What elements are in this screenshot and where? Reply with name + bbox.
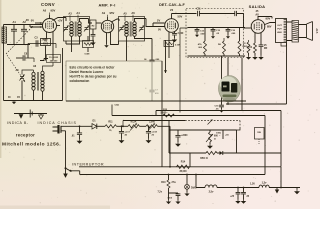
wire V4 top stub	[258, 17, 272, 20]
svg-text:-3V: -3V	[25, 18, 29, 22]
paper scan edge bottom	[0, 206, 110, 210]
wire osc bottom rail	[4, 100, 63, 102]
switch S1	[63, 167, 79, 178]
svg-text:27Ω: 27Ω	[172, 181, 177, 184]
potentiometer 600 in box	[206, 130, 219, 148]
small diode on 650 line	[220, 151, 223, 155]
AC plug	[53, 125, 62, 134]
IFT1 secondary coil	[78, 22, 81, 37]
resistor R1 box	[41, 39, 51, 46]
label R7	[243, 43, 248, 48]
wire box to coil	[40, 59, 48, 61]
svg-text:V3: V3	[170, 8, 174, 12]
note text line 2	[70, 70, 104, 74]
wire IFT2 sec bottom down	[135, 36, 153, 39]
label A1	[13, 20, 17, 24]
wire 650 line	[169, 151, 281, 154]
legend text INDICA CHASIS	[38, 121, 77, 125]
label A6	[131, 11, 135, 21]
resistor R3 boxed	[83, 36, 94, 56]
svg-text:DIAL: DIAL	[191, 187, 197, 190]
label C13	[200, 31, 206, 36]
svg-text:CONV: CONV	[41, 2, 55, 7]
tube V4 SALIDA	[251, 20, 265, 34]
svg-text:Daniel Horacio Lucero: Daniel Horacio Lucero	[70, 70, 104, 74]
electrolytic C17 with ground	[119, 126, 131, 142]
wire long vertical x180	[180, 28, 188, 113]
capacitor C16	[226, 28, 231, 39]
electrolytic C21	[230, 187, 240, 204]
wire blob vertical 1	[221, 56, 223, 105]
ground far right	[295, 188, 299, 194]
svg-text:colaboracion: colaboracion	[70, 79, 90, 83]
svg-text:C9 .00025: C9 .00025	[49, 57, 59, 59]
tube V3 DET CAV A-F	[165, 19, 179, 33]
wire AC top	[62, 125, 93, 127]
label 2.5v	[209, 191, 214, 194]
capacitor C13 with B- arrow	[195, 28, 200, 38]
svg-text:.0005: .0005	[42, 39, 49, 42]
label 2V at V3	[157, 19, 160, 23]
label C14 25MF	[264, 45, 268, 50]
svg-text:5,000~: 5,000~	[161, 113, 169, 115]
wire V4 plate right	[265, 23, 276, 25]
svg-text:OUT: OUT	[277, 25, 282, 27]
output transformer winding	[284, 20, 287, 41]
wire under note box	[66, 100, 246, 102]
capacitor C20 hang with B- arrow	[214, 105, 223, 112]
svg-text:75,: 75,	[109, 130, 112, 132]
resistor R9 cathode	[253, 43, 257, 59]
B- arrow bottom chain	[275, 188, 279, 194]
capacitor C8 on horizontal	[16, 53, 34, 63]
junction dots rails	[169, 166, 197, 176]
svg-text:1000: 1000	[216, 133, 222, 135]
wire lamp to ground	[185, 189, 189, 195]
label 88V	[267, 26, 272, 29]
label C value 2000	[178, 33, 184, 35]
wire V2 plate stub	[107, 17, 109, 20]
wire V1 cathode down	[46, 32, 48, 39]
resistor R13 on AC line	[146, 122, 158, 131]
label R11	[108, 121, 113, 133]
label 650	[200, 156, 208, 160]
wire antenna top rail	[4, 24, 43, 26]
resistor R14 on upper rail	[177, 161, 190, 174]
osc coil secondary	[41, 71, 44, 91]
osc gang dashed line	[7, 55, 25, 82]
osc coil primary	[32, 72, 35, 90]
svg-text:R10: R10	[161, 182, 166, 184]
svg-text:2V: 2V	[157, 19, 160, 23]
capacitor C3	[36, 40, 38, 46]
wire OT secondary down	[286, 43, 288, 105]
wire loop C horizontal	[112, 104, 265, 175]
svg-text:95V: 95V	[110, 11, 115, 15]
wire osc line left down	[27, 44, 29, 59]
wire IFT1 sec bottom	[66, 36, 80, 44]
svg-text:+C18: +C18	[152, 132, 158, 134]
wire V3 cathode down	[169, 32, 175, 41]
wire 650 vertical left	[189, 153, 191, 167]
IFT1 primary trimmer	[63, 26, 68, 32]
resistor R6	[223, 38, 226, 56]
label V3 id	[170, 8, 183, 19]
small box right	[255, 128, 265, 145]
svg-text:Este circuito lo envia el lect: Este circuito lo envia el lector	[70, 65, 116, 69]
label C5 at left	[8, 96, 21, 99]
svg-text:7,2v: 7,2v	[158, 192, 163, 194]
svg-text:INTERRUPTOR: INTERRUPTOR	[72, 162, 104, 166]
resistor R5 470k	[204, 28, 207, 57]
line capacitor C13a with ground	[71, 125, 82, 143]
wire osc coil bottoms	[22, 88, 43, 101]
wire IFT2 primary bottom down	[126, 36, 128, 61]
svg-text:R14: R14	[181, 161, 186, 164]
IFT2 can outline	[119, 17, 145, 42]
wire chain right vertical	[280, 167, 282, 189]
wire IFT1 primary bottom	[71, 36, 73, 52]
filament rail lower	[80, 174, 265, 176]
label C16	[231, 30, 236, 35]
svg-text:+2200: +2200	[181, 135, 188, 137]
legend wire	[14, 113, 47, 115]
svg-text:35,000: 35,000	[179, 171, 187, 173]
tube V2 AMP F-I	[101, 20, 113, 32]
wire loop B left leg	[155, 111, 157, 116]
caption receptor	[16, 132, 35, 137]
inner box	[169, 130, 237, 153]
label D1	[92, 120, 96, 123]
wire AVC arrow stub	[164, 40, 167, 73]
capacitor C15	[211, 28, 216, 39]
wire osc coil top feeds	[43, 63, 54, 72]
box R4 240000	[47, 55, 61, 63]
wire V4 cathode pins	[255, 33, 261, 43]
note text line 1	[70, 65, 116, 69]
wire V2 cathode down arrow	[104, 33, 109, 48]
coupling capacitor C11	[198, 11, 200, 17]
wire note box right vertical	[161, 61, 163, 167]
legend battery symbol	[30, 110, 32, 118]
rectifier diode D1	[92, 124, 105, 129]
svg-text:C11: C11	[196, 8, 201, 11]
IFT2 secondary trimmer	[139, 26, 144, 32]
svg-text:Mitchell modelo 1256.: Mitchell modelo 1256.	[2, 142, 61, 148]
label C3	[34, 37, 48, 42]
IFT2 primary trimmer	[119, 26, 124, 32]
wire IFT1 sec top to V2 grid	[80, 19, 93, 24]
wire couplate right down	[241, 58, 243, 111]
label SALIDA stage title	[249, 4, 266, 17]
label 0V at V1	[31, 19, 34, 23]
speaker wires to cone	[299, 25, 307, 38]
wire V1 grid left upper	[35, 22, 43, 24]
svg-text:1,3v: 1,3v	[262, 182, 267, 185]
wire osc top line	[28, 44, 56, 49]
wire plug bottom to switch	[62, 131, 66, 168]
osc coil core	[38, 72, 39, 91]
wire chain up left	[195, 175, 197, 188]
speaker voice coil	[292, 21, 299, 43]
resistor R7 half meg	[238, 28, 241, 57]
label R10 27	[161, 181, 176, 184]
svg-text:2,000: 2,000	[178, 33, 184, 35]
capacitor C10 on AVC return	[144, 39, 160, 90]
wire detector bottom rail	[188, 55, 246, 57]
svg-text:INDICA CHASIS: INDICA CHASIS	[38, 121, 77, 125]
label 7.2v	[158, 192, 163, 194]
label R9 150	[248, 47, 253, 49]
tuning gang capacitor C1b	[21, 25, 27, 45]
filament rail upper	[79, 166, 281, 168]
gang dashed line	[6, 26, 33, 54]
label AMP F-I stage title	[98, 3, 115, 8]
label R5	[198, 43, 203, 49]
IFT1 core	[75, 22, 76, 37]
choke L3	[259, 185, 269, 187]
label C15	[216, 30, 221, 35]
svg-text:DET..CAV..A-F: DET..CAV..A-F	[159, 3, 185, 7]
wire IFT can down	[62, 48, 64, 101]
label 130	[250, 183, 255, 186]
label A6 osc	[33, 65, 37, 68]
wire loop D horizontal	[122, 120, 240, 131]
svg-text:1,30: 1,30	[250, 183, 255, 186]
vertical wire V3 cathode long	[168, 40, 170, 58]
wire R2 to V2 grid	[96, 22, 101, 24]
svg-text:MF: MF	[264, 48, 268, 50]
wire V1 right pin	[57, 25, 61, 27]
capacitor C4 below R2	[91, 34, 96, 44]
capacitor C23 with ground	[167, 193, 180, 204]
wire V3 left pin	[153, 23, 165, 27]
svg-text:A5: A5	[123, 12, 127, 16]
legend chassis arrow	[39, 114, 44, 120]
wire V3 plate stub	[171, 16, 173, 19]
svg-text:+C17: +C17	[125, 132, 131, 134]
wire V1 plate to IFT1	[53, 18, 67, 22]
wire V1 pin2 down	[52, 32, 54, 61]
svg-text:A6: A6	[131, 11, 135, 15]
wire blob vertical 2	[227, 58, 229, 105]
wire OT B+ down from can	[281, 43, 287, 47]
label 1.3v	[262, 182, 267, 185]
svg-text:88V: 88V	[267, 26, 272, 29]
resistor R10 27ohm	[167, 174, 170, 193]
IFT1 secondary trimmer	[84, 26, 89, 32]
svg-text:95V: 95V	[51, 9, 56, 13]
stain blob	[219, 76, 241, 103]
label 0V at V3	[158, 29, 161, 32]
svg-text:2,000: 2,000	[149, 122, 155, 124]
label A3	[68, 12, 72, 22]
svg-text:SALIDA: SALIDA	[249, 4, 266, 9]
IFT2 core	[130, 22, 131, 37]
svg-text:90V: 90V	[266, 17, 271, 21]
wire R10 own ground	[167, 193, 171, 204]
antenna coil L1	[2, 27, 7, 43]
svg-text:0V: 0V	[31, 19, 34, 23]
IFT1 primary coil	[70, 22, 73, 37]
label R6	[218, 44, 222, 46]
wire box corner feed	[168, 121, 170, 131]
svg-text:0V: 0V	[158, 29, 161, 32]
label 90V	[266, 17, 271, 21]
electrolytic C18 with ground	[146, 126, 158, 142]
label A4	[76, 11, 80, 21]
dashed couplate box	[186, 9, 244, 58]
wire V2 pin right down	[111, 32, 119, 45]
speaker ALT	[307, 22, 320, 41]
caption Mitchell modelo	[2, 142, 61, 148]
label CONV stage title	[41, 2, 55, 7]
wire AC right	[158, 126, 171, 167]
label V2 voltage	[102, 11, 115, 17]
resistor R16 bias	[247, 40, 251, 59]
wire V4 grid from box	[244, 27, 252, 29]
capacitor C14 cathode bypass	[259, 43, 264, 59]
svg-text:A1: A1	[13, 20, 17, 24]
wire bottom chain	[196, 187, 300, 189]
label C11	[196, 8, 201, 11]
svg-text:ALT.: ALT.	[315, 28, 319, 34]
svg-text:50V: 50V	[178, 15, 183, 19]
wire tuning bottom rail	[7, 44, 30, 46]
legend B- triangle	[19, 114, 24, 119]
svg-text:A3: A3	[68, 12, 72, 16]
resistor R11 on AC line	[105, 125, 117, 128]
legend text INDICA B-	[7, 121, 29, 125]
svg-text:2,5v: 2,5v	[209, 191, 214, 194]
label A5 osc	[16, 69, 20, 72]
svg-text:0.1M: 0.1M	[175, 45, 180, 47]
IFT2 primary coil	[125, 22, 128, 37]
electrolytic C19 in box	[175, 130, 188, 146]
wire left vertical bus	[3, 25, 5, 101]
label INTERRUPTOR	[72, 162, 104, 166]
label A2	[23, 20, 27, 24]
wire C11 to right edge	[200, 11, 244, 28]
resistor R17 boxed	[164, 41, 180, 47]
electrolytic C22	[241, 187, 250, 204]
svg-text:+2V: +2V	[58, 19, 63, 23]
label A5	[123, 12, 127, 22]
wire IFT2 sec top to V3 grid	[135, 19, 165, 27]
wire AC mid	[117, 125, 129, 127]
output transformer T2 can	[276, 19, 287, 43]
wire loop A horizontal	[226, 103, 287, 105]
label DET CAV A-F stage title	[159, 3, 185, 7]
pilot lamp DIAL	[185, 174, 198, 190]
svg-text:Hor#75 le da las gracias por s: Hor#75 le da las gracias por su	[70, 75, 117, 79]
label -3V at V1	[25, 18, 29, 22]
wire V2 plate to IFT2	[111, 19, 119, 22]
tube V1 CONV	[43, 19, 57, 33]
svg-text:A4: A4	[76, 11, 80, 15]
wire small stub in box	[223, 130, 229, 139]
B- arrow left bottom	[12, 101, 17, 105]
svg-text:Ω: Ω	[214, 138, 216, 141]
svg-text:receptor: receptor	[16, 132, 35, 137]
wire V1 plate stub up	[49, 15, 51, 19]
note box frame	[66, 61, 162, 101]
wire R1 bottom down	[46, 39, 47, 61]
resistor R15 5000 on heater line	[161, 109, 175, 117]
svg-text:240,000: 240,000	[50, 59, 58, 62]
note text line 3	[70, 75, 117, 79]
capacitor C7 450	[149, 90, 159, 102]
svg-text:C5A: C5A	[115, 104, 120, 107]
wire V3 plate line right	[172, 14, 197, 17]
capacitor C below V3 with ground	[172, 33, 177, 41]
choke L2	[205, 185, 217, 188]
svg-text:PUT: PUT	[277, 29, 282, 31]
IFT1 can outline	[64, 17, 90, 42]
svg-text:650 Ω: 650 Ω	[200, 156, 208, 160]
label 1000 in box	[216, 133, 222, 138]
label +2V at V1	[58, 19, 63, 23]
resistor R12 on AC line	[128, 121, 140, 131]
osc padder trimmer	[19, 70, 33, 88]
wire V1 grid left lower	[30, 25, 43, 28]
svg-text:470,: 470,	[198, 43, 203, 46]
wire loop B horizontal	[156, 111, 281, 167]
IFT2 secondary coil	[133, 22, 136, 37]
svg-text:0.5M: 0.5M	[85, 54, 90, 56]
svg-text:INDICA B-: INDICA B-	[7, 121, 29, 125]
note text line 4	[70, 79, 90, 83]
wire detector top rail	[188, 27, 246, 29]
tuning gang capacitor C1a	[11, 25, 17, 45]
wire AC mid2	[140, 125, 150, 127]
paper scan edge left	[0, 0, 1, 158]
speaker coupling wires	[287, 22, 293, 41]
svg-text:AMP. F-I: AMP. F-I	[98, 3, 115, 8]
resistor R2 box left of V2	[90, 20, 96, 34]
label V1 top voltage	[43, 9, 56, 16]
wire switch to lower rail	[0, 0, 1, 1]
